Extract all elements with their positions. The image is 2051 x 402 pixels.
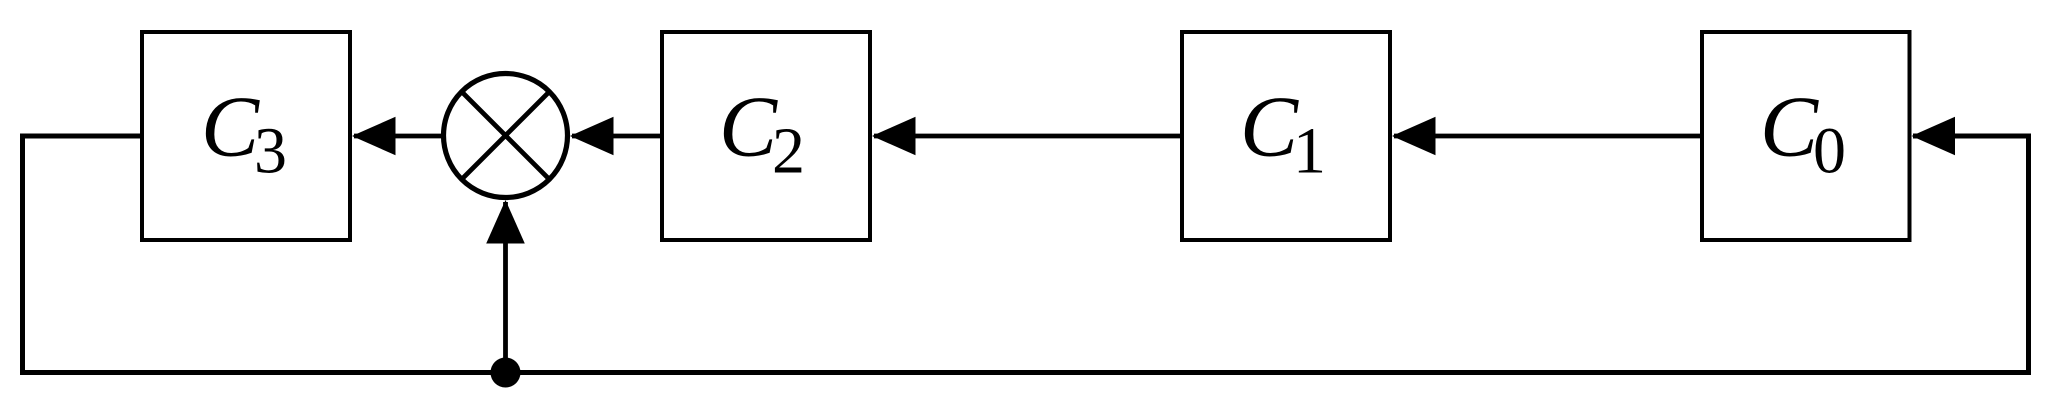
register box C0 xyxy=(1702,32,1910,240)
register box C2 xyxy=(662,32,870,240)
register box C3 xyxy=(142,32,350,240)
wire C2 to XOR xyxy=(572,134,660,139)
feedback wire: C3 left, down, along bottom, up right side to C0 xyxy=(23,136,2029,373)
svg-text:2: 2 xyxy=(772,115,805,188)
wire C0 to C1 xyxy=(1394,134,1700,139)
arrowhead into C0 xyxy=(1912,117,1956,156)
wire XOR to C3 xyxy=(354,134,442,139)
svg-text:1: 1 xyxy=(1293,115,1326,188)
svg-text:C: C xyxy=(201,78,260,175)
arrowhead into C2 xyxy=(872,117,916,156)
svg-text:0: 0 xyxy=(1813,115,1846,188)
wire C1 to C2 xyxy=(874,134,1180,139)
svg-text:C: C xyxy=(1240,78,1299,175)
wire junction to XOR bottom xyxy=(503,202,508,373)
register box C1 xyxy=(1182,32,1390,240)
arrowhead up into XOR bottom xyxy=(486,200,525,244)
arrowhead into XOR right xyxy=(570,117,614,156)
junction dot xyxy=(491,358,521,388)
arrowhead into C3 xyxy=(352,117,396,156)
arrowhead into C1 xyxy=(1392,117,1436,156)
svg-text:3: 3 xyxy=(254,115,287,188)
svg-text:C: C xyxy=(1760,78,1819,175)
XOR adder circle xyxy=(444,74,568,198)
svg-text:C: C xyxy=(719,78,778,175)
